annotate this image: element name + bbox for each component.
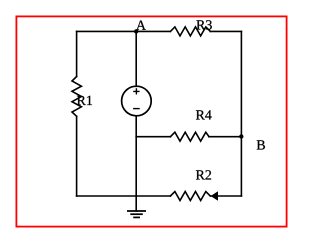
source minus sign (133, 108, 140, 110)
voltage source V1 circle (122, 86, 152, 116)
label node B (257, 140, 265, 149)
wire left vertical upper (76, 31, 78, 76)
wire left vertical lower (76, 116, 78, 196)
node A junction dot (134, 29, 138, 33)
wire R4 to node B (209, 136, 241, 138)
node B junction dot (239, 134, 243, 138)
label node A (136, 21, 146, 30)
resistor R2 (170, 192, 210, 201)
resistor R3 (170, 27, 210, 36)
wire top-left: node A to top-left corner (77, 30, 137, 32)
label R2 (196, 170, 211, 179)
label R4 (196, 110, 212, 119)
wire bottom-right (after arrow) (210, 195, 241, 197)
wire R3 to top-right corner (210, 30, 241, 32)
wire node A down to source (135, 31, 137, 86)
current arrow on R2 (212, 192, 218, 200)
wire node A to R3 (136, 30, 170, 32)
wire source bottom down to ground junction (135, 116, 137, 196)
ground bar 1 (127, 210, 146, 212)
ground stem (135, 196, 137, 211)
wire right vertical (240, 31, 242, 196)
ground bar 2 (130, 213, 143, 215)
resistor R1 (72, 77, 81, 117)
resistor R4 (170, 132, 209, 141)
ground bar 3 (133, 216, 140, 218)
wire bottom-left (77, 195, 171, 197)
label R1 (77, 96, 92, 105)
source plus sign (133, 88, 139, 94)
label R3 (196, 20, 211, 29)
wire middle junction to R4 (136, 136, 170, 138)
border frame (16, 16, 286, 226)
